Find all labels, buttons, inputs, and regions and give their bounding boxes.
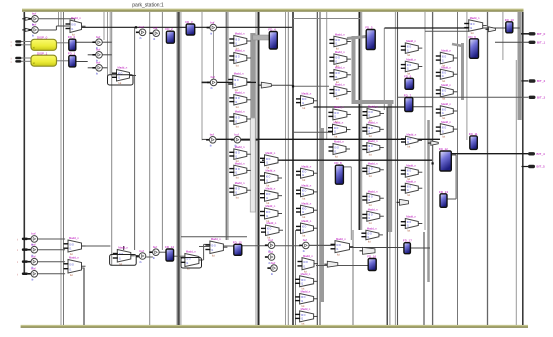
- svg-text:I0 O: I0 O: [367, 234, 372, 236]
- wire h10: [21, 57, 32, 59]
- svg-text:Madd_n: Madd_n: [69, 256, 79, 260]
- svg-text:I0 O: I0 O: [301, 297, 306, 299]
- wire v15: [161, 12, 163, 250]
- gate G28: [362, 121, 384, 139]
- svg-text:I0 O: I0 O: [442, 90, 447, 92]
- svg-text:DISP_1: DISP_1: [37, 51, 48, 55]
- svg-text:I0 O: I0 O: [266, 159, 271, 161]
- wire h13: [57, 60, 69, 62]
- wire h60: [223, 245, 234, 247]
- svg-text:DISP_0: DISP_0: [37, 36, 48, 40]
- svg-text:Madd_n: Madd_n: [335, 50, 345, 54]
- small gate S3: [22, 28, 32, 31]
- wire v47: [502, 12, 504, 60]
- mux G109: [464, 16, 487, 35]
- svg-text:buf: buf: [32, 23, 36, 27]
- bus ramp into tall register: [347, 37, 366, 39]
- svg-text:buf: buf: [303, 238, 307, 242]
- register R11: [469, 132, 478, 150]
- svg-text:FD_15: FD_15: [233, 240, 242, 244]
- state block Y1: [31, 51, 57, 66]
- output pin Q4: [528, 152, 545, 156]
- svg-text:I0 O: I0 O: [368, 197, 373, 199]
- mux G105: [180, 250, 203, 271]
- gate G17: [296, 219, 318, 237]
- wire h34: [449, 154, 456, 156]
- wire h53: [82, 245, 111, 247]
- svg-text:lut: lut: [336, 47, 339, 51]
- wire v22: [255, 12, 257, 325]
- wire v11: [109, 12, 111, 75]
- gate G21: [329, 32, 351, 50]
- svg-text:I0 O: I0 O: [407, 171, 412, 173]
- svg-text:Madd_n: Madd_n: [335, 66, 345, 70]
- wire v43: [432, 12, 434, 325]
- wire h48: [410, 247, 430, 249]
- svg-text:buf: buf: [140, 25, 144, 29]
- wire h27: [314, 106, 406, 108]
- svg-text:lut: lut: [303, 197, 306, 201]
- svg-text:Madd_n: Madd_n: [266, 204, 276, 208]
- wire h62: [309, 244, 335, 246]
- svg-text:Madd_n: Madd_n: [301, 290, 311, 294]
- wire h31: [181, 236, 247, 238]
- bottom frame bar: [21, 325, 528, 328]
- buffer U5: [136, 25, 146, 40]
- svg-text:I0 O: I0 O: [235, 57, 240, 59]
- svg-text:Madd_n: Madd_n: [406, 215, 416, 219]
- wire v41: [397, 12, 399, 325]
- small gate S2: [22, 17, 32, 20]
- input pin P7: [17, 272, 28, 276]
- svg-text:FD_4: FD_4: [268, 28, 276, 32]
- svg-text:I0 O: I0 O: [186, 258, 191, 260]
- bus b6: [427, 120, 430, 282]
- wire v48: [515, 60, 517, 325]
- gate G13: [296, 92, 318, 110]
- wire v33: [361, 12, 363, 230]
- gate G42: [436, 65, 458, 83]
- svg-text:I0 O: I0 O: [304, 262, 309, 264]
- svg-text:Madd_n: Madd_n: [406, 163, 416, 167]
- svg-text:lut: lut: [407, 193, 410, 197]
- svg-text:I0 O: I0 O: [301, 315, 306, 317]
- wire h6: [56, 25, 69, 27]
- svg-text:lut: lut: [369, 152, 372, 156]
- wire v19: [201, 12, 203, 140]
- svg-text:I0 O: I0 O: [302, 227, 307, 229]
- gate G34: [361, 226, 383, 243]
- svg-text:buf: buf: [271, 261, 275, 265]
- wire h43: [495, 41, 529, 43]
- wire h58: [174, 255, 185, 257]
- svg-text:BIT_2: BIT_2: [537, 79, 546, 83]
- svg-text:FD_9: FD_9: [469, 35, 477, 39]
- input pin P6: [17, 260, 28, 264]
- gate G16: [296, 201, 318, 219]
- svg-text:FD_16: FD_16: [367, 255, 376, 259]
- svg-text:I0 O: I0 O: [302, 172, 307, 174]
- bus b5: [461, 43, 464, 100]
- register R10: [505, 18, 514, 33]
- svg-text:I0 O: I0 O: [235, 169, 240, 171]
- svg-text:st: st: [33, 46, 35, 49]
- bus b1: [250, 33, 255, 118]
- buffer U12: [149, 245, 159, 260]
- svg-text:I0 O: I0 O: [267, 229, 272, 231]
- svg-text:I0 O: I0 O: [335, 90, 340, 92]
- wire h36: [240, 139, 258, 141]
- wire v37: [383, 28, 385, 110]
- register R15: [233, 240, 242, 255]
- wire h40: [398, 96, 529, 98]
- svg-text:buf: buf: [210, 20, 214, 24]
- wire v18: [180, 12, 182, 325]
- svg-text:FD_1: FD_1: [68, 52, 76, 56]
- svg-text:Madd_n: Madd_n: [235, 110, 245, 114]
- wire h54: [82, 267, 85, 269]
- state block Y0: [31, 36, 57, 51]
- wire v20: [225, 12, 227, 240]
- wire h64: [338, 265, 369, 267]
- gate G38: [401, 163, 423, 181]
- feedback box B2: [181, 258, 202, 269]
- wire h5: [39, 18, 75, 20]
- gate G31: [362, 162, 384, 179]
- svg-text:Madd_n: Madd_n: [441, 83, 451, 87]
- input pin P0: [11, 40, 22, 44]
- wire v35: [203, 244, 205, 260]
- output pin Q2: [529, 79, 546, 83]
- svg-text:lut: lut: [442, 134, 445, 138]
- wire h17: [88, 67, 94, 69]
- svg-text:Madd_n: Madd_n: [367, 226, 377, 230]
- svg-text:lut: lut: [369, 203, 372, 207]
- buffer U6: [150, 26, 160, 41]
- buffer U1: [28, 23, 38, 38]
- svg-text:buf: buf: [140, 249, 144, 253]
- top frame bar: [22, 9, 524, 12]
- svg-text:I0 O: I0 O: [301, 280, 306, 282]
- register R3: [185, 20, 195, 35]
- svg-text:I0 O: I0 O: [442, 57, 447, 59]
- register R9: [469, 35, 479, 59]
- svg-text:FD_14: FD_14: [165, 245, 174, 249]
- register R5: [365, 26, 375, 50]
- svg-text:lut: lut: [442, 97, 445, 101]
- svg-text:Madd_n: Madd_n: [301, 307, 311, 311]
- mux G104: [113, 246, 135, 266]
- svg-text:Madd_n: Madd_n: [407, 132, 417, 136]
- buffer U9: [206, 133, 216, 148]
- wire v32: [359, 12, 361, 230]
- svg-text:Madd_n: Madd_n: [235, 161, 245, 165]
- wire h29: [293, 85, 329, 87]
- wire h65: [309, 244, 335, 246]
- register R2: [165, 27, 174, 43]
- gate G4: [229, 110, 251, 129]
- svg-text:I0 O: I0 O: [266, 194, 271, 196]
- buffer U16: [299, 238, 309, 253]
- wire h46: [513, 27, 520, 29]
- wire v5: [74, 19, 76, 22]
- small gate S4: [428, 141, 439, 146]
- gate G1: [229, 49, 251, 68]
- output pin Q0: [529, 32, 546, 36]
- wire h25: [272, 84, 294, 86]
- gate G19: [295, 290, 318, 308]
- wire v8: [55, 26, 57, 30]
- buffer U10: [231, 133, 241, 148]
- junction dot: [292, 85, 294, 87]
- register R12: [439, 147, 452, 171]
- svg-text:Madd_n: Madd_n: [334, 121, 344, 125]
- svg-text:Madd_n: Madd_n: [335, 82, 345, 86]
- svg-text:Madd_n: Madd_n: [69, 236, 79, 240]
- gate G6: [229, 161, 251, 179]
- wire v36: [123, 246, 125, 250]
- wire h38: [262, 159, 432, 161]
- mux G107: [298, 254, 319, 274]
- wire h42: [521, 33, 529, 35]
- gate G36: [401, 57, 423, 75]
- svg-text:Madd_n: Madd_n: [368, 162, 378, 166]
- svg-text:I0 O: I0 O: [442, 110, 447, 112]
- svg-text:lut: lut: [70, 252, 73, 256]
- wire h39: [452, 153, 529, 155]
- svg-text:Madd_n: Madd_n: [211, 237, 221, 241]
- gate G8: [260, 151, 282, 170]
- wire h33: [447, 198, 456, 200]
- wire h12: [57, 42, 69, 44]
- wire v50: [522, 12, 524, 325]
- svg-text:buf: buf: [31, 255, 35, 259]
- svg-text:lut: lut: [236, 124, 239, 128]
- svg-text:lut: lut: [302, 322, 305, 326]
- register R0: [68, 35, 76, 50]
- buffer U17: [28, 232, 38, 247]
- svg-text:buf: buf: [269, 238, 273, 242]
- buffer U14: [265, 250, 275, 265]
- svg-text:buf: buf: [96, 35, 100, 39]
- svg-text:I0 O: I0 O: [368, 128, 373, 130]
- wire h32: [204, 243, 210, 245]
- buffer U3: [92, 48, 102, 63]
- wire v17: [178, 12, 180, 325]
- svg-text:Madd_n: Madd_n: [441, 49, 451, 53]
- svg-text:lut: lut: [369, 134, 372, 138]
- wire v21: [227, 12, 229, 240]
- wire v29: [319, 12, 321, 325]
- svg-text:Madd_n: Madd_n: [234, 72, 244, 76]
- svg-text:Madd_n: Madd_n: [302, 164, 312, 168]
- wire h16: [76, 61, 88, 63]
- input pin P4: [17, 237, 28, 241]
- svg-text:Madd_n: Madd_n: [441, 102, 451, 106]
- gate G27: [329, 140, 351, 159]
- wire v34: [455, 155, 457, 199]
- svg-text:Madd_n: Madd_n: [235, 49, 245, 53]
- svg-text:I0 O: I0 O: [407, 139, 412, 141]
- wire h45: [483, 27, 507, 29]
- small gate S1: [258, 82, 271, 88]
- gate G2: [228, 72, 251, 92]
- svg-text:I0 O: I0 O: [368, 146, 373, 148]
- wire v12: [111, 12, 113, 265]
- svg-text:Madd_n: Madd_n: [406, 57, 416, 61]
- svg-text:I0 O: I0 O: [334, 113, 339, 115]
- wire v10: [107, 12, 109, 76]
- svg-text:Madd_n: Madd_n: [235, 91, 245, 95]
- svg-text:Madd_n: Madd_n: [334, 140, 344, 144]
- wire v2: [63, 12, 65, 325]
- wire v9: [103, 12, 105, 40]
- svg-text:Madd_n: Madd_n: [368, 105, 378, 109]
- gate G43: [436, 83, 458, 101]
- buffer U7: [207, 20, 217, 35]
- svg-text:I0 O: I0 O: [337, 245, 342, 247]
- gate G32: [362, 189, 384, 207]
- svg-text:Madd_n: Madd_n: [266, 186, 276, 190]
- buffer U4: [92, 61, 102, 76]
- small gate S6: [324, 261, 338, 267]
- svg-text:lut: lut: [368, 240, 371, 244]
- gate G29: [363, 105, 385, 123]
- gate G37: [401, 132, 422, 148]
- svg-text:Madd_n: Madd_n: [302, 183, 312, 187]
- svg-text:I0 O: I0 O: [368, 168, 373, 170]
- svg-text:FD_8: FD_8: [334, 161, 342, 165]
- svg-text:Madd_n: Madd_n: [406, 179, 416, 183]
- wire h59: [199, 246, 210, 248]
- buffer U0: [28, 12, 38, 27]
- wire v45: [466, 12, 468, 140]
- wire v23: [258, 12, 260, 325]
- gate G10: [260, 186, 282, 205]
- svg-text:I0 O: I0 O: [70, 244, 75, 246]
- svg-text:FD_17: FD_17: [403, 239, 412, 243]
- wire v40: [394, 12, 396, 325]
- svg-text:I0 O: I0 O: [235, 153, 240, 155]
- svg-text:I0 O: I0 O: [211, 246, 216, 248]
- svg-text:FD_10: FD_10: [505, 18, 514, 22]
- bus b4: [320, 128, 324, 302]
- svg-text:BIT_4: BIT_4: [537, 152, 546, 156]
- svg-text:FD_11: FD_11: [469, 132, 478, 136]
- mux G108: [331, 237, 354, 257]
- wire v6: [213, 31, 215, 79]
- svg-text:lut: lut: [303, 215, 306, 219]
- wire v28: [316, 12, 318, 325]
- wire v4: [58, 12, 60, 26]
- svg-text:buf: buf: [210, 133, 214, 137]
- svg-text:Madd_n: Madd_n: [186, 250, 196, 254]
- wire h11: [21, 60, 32, 62]
- gate G45: [436, 120, 458, 139]
- svg-text:Madd_n: Madd_n: [441, 65, 451, 69]
- gate G14: [296, 164, 318, 182]
- wire h18: [102, 41, 112, 43]
- gate G12: [261, 221, 283, 239]
- svg-text:Madd_n: Madd_n: [335, 32, 345, 36]
- wire v39: [389, 232, 391, 325]
- feedback box B0: [108, 75, 134, 85]
- wire h28: [293, 131, 332, 133]
- small gate S0: [486, 27, 496, 32]
- svg-text:FD_5: FD_5: [365, 26, 373, 30]
- svg-text:park_station:1: park_station:1: [132, 3, 164, 9]
- gate G20: [295, 307, 318, 326]
- svg-text:buf: buf: [153, 26, 157, 30]
- svg-text:I0 O: I0 O: [407, 222, 412, 224]
- gate G33: [362, 207, 384, 225]
- wire h44: [522, 166, 529, 168]
- svg-text:I0 O: I0 O: [302, 191, 307, 193]
- mux G103: [64, 256, 86, 277]
- svg-text:I0 O: I0 O: [302, 209, 307, 211]
- wire h22: [202, 81, 211, 83]
- svg-text:buf: buf: [234, 133, 238, 137]
- buffer U11: [136, 249, 146, 264]
- wire h23: [217, 81, 233, 83]
- wire h49: [38, 238, 66, 240]
- wire h37: [216, 138, 440, 140]
- svg-text:lut: lut: [337, 252, 340, 256]
- register R7: [404, 94, 413, 112]
- svg-text:I0 O: I0 O: [442, 128, 447, 130]
- svg-text:lut: lut: [442, 79, 445, 83]
- wire v1: [60, 12, 62, 325]
- bus elbow mid-right: [352, 100, 394, 104]
- svg-text:I0 O: I0 O: [407, 187, 412, 189]
- wire h50: [38, 249, 66, 251]
- svg-text:I0 O: I0 O: [369, 112, 374, 114]
- output pin Q3: [529, 96, 546, 100]
- buffer U13: [265, 238, 275, 253]
- svg-text:I0 O: I0 O: [407, 65, 412, 67]
- svg-text:FD_7: FD_7: [404, 94, 412, 98]
- small gate S5: [360, 247, 376, 254]
- svg-text:Madd_n: Madd_n: [235, 181, 245, 185]
- svg-text:I0 O: I0 O: [335, 58, 340, 60]
- svg-text:I0 O: I0 O: [407, 47, 412, 49]
- svg-text:lut: lut: [442, 116, 445, 120]
- svg-text:lut: lut: [407, 228, 410, 232]
- svg-text:Madd_n: Madd_n: [266, 169, 276, 173]
- svg-text:lut: lut: [236, 195, 239, 199]
- wire h57: [159, 251, 166, 253]
- output pin Q5: [528, 165, 545, 169]
- junction dot: [135, 26, 137, 28]
- register R1: [68, 52, 76, 67]
- gate G9: [260, 169, 282, 188]
- junction dot: [432, 162, 434, 164]
- gate G5: [229, 145, 251, 163]
- wire v7: [350, 167, 352, 240]
- bus ramp right: [452, 44, 463, 46]
- buffer U15: [267, 261, 277, 276]
- gate G0: [229, 32, 251, 51]
- svg-text:lut: lut: [335, 135, 338, 139]
- svg-text:Madd_n: Madd_n: [118, 66, 128, 70]
- gate G39: [401, 179, 423, 197]
- wire v0: [23, 12, 25, 274]
- wire h51: [38, 261, 66, 263]
- register R16: [367, 255, 376, 271]
- wire v14: [149, 12, 151, 325]
- svg-text:Madd_n: Madd_n: [368, 189, 378, 193]
- wire v13: [134, 27, 136, 250]
